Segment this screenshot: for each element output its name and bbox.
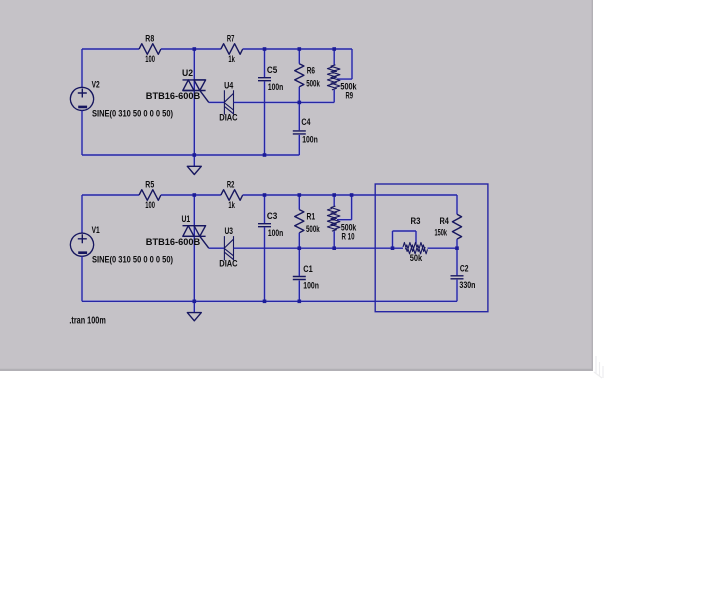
box around snubber network <box>375 184 488 312</box>
wire: C4 bottom lead <box>298 135 300 155</box>
wire: R6 bottom lead <box>298 87 300 103</box>
wire: top rail left (V2 to R8) <box>82 48 139 50</box>
diac U4 <box>219 80 238 122</box>
triac U1 <box>146 214 209 248</box>
junction: top rail / R10 bypass <box>350 193 354 197</box>
voltage source V1 <box>70 225 173 264</box>
svg-text:100: 100 <box>145 54 155 64</box>
wire: C3 top lead <box>264 195 266 223</box>
svg-text:R5: R5 <box>145 179 154 189</box>
wire: C5 top lead <box>264 49 266 77</box>
resistor R8 <box>139 33 161 64</box>
svg-text:100: 100 <box>145 200 155 210</box>
svg-text:U1: U1 <box>182 214 191 224</box>
wire: top rail left (V1 to R5) <box>82 194 139 196</box>
wire: R10 bottom lead <box>333 231 335 248</box>
wire: U3 to R3 (gate rail, enters box) <box>234 247 393 249</box>
junction: top rail / R1 <box>298 193 302 197</box>
wire: V1 bottom lead <box>81 256 83 301</box>
svg-text:R9: R9 <box>346 91 354 101</box>
capacitor C4 <box>293 117 318 144</box>
resistor R1 <box>295 210 321 235</box>
wire: R4 top lead <box>456 195 458 214</box>
junction: top rail / C5 <box>263 47 267 51</box>
junction: gate rail / R4-C2 node <box>455 246 459 250</box>
junction: bottom rail / ground <box>193 300 197 304</box>
svg-text:U2: U2 <box>182 68 193 78</box>
svg-text:R 10: R 10 <box>342 231 355 241</box>
ground (top circuit) <box>187 166 201 174</box>
spice directive .tran 100m <box>69 316 105 327</box>
wire: R3 left lead <box>393 247 404 249</box>
svg-text:C4: C4 <box>301 117 311 127</box>
wire: R9 bottom lead <box>333 90 335 103</box>
wire: top rail R5 to R2 <box>161 194 221 196</box>
junction: top rail / U2 MT2 <box>193 47 197 51</box>
wire: C2 top lead <box>456 248 458 275</box>
svg-text:DIAC: DIAC <box>219 258 238 268</box>
svg-text:50k: 50k <box>410 253 423 263</box>
diac U3 <box>219 226 238 268</box>
capacitor C2 <box>451 264 476 290</box>
capacitor C5 <box>258 65 284 92</box>
wire: C2 bottom lead <box>456 280 458 302</box>
wire: R4 bottom lead <box>456 239 458 248</box>
junction: top rail / U1 MT2 <box>193 193 197 197</box>
wire: U2 gate to diac U4 <box>209 101 225 103</box>
capacitor C3 <box>258 211 284 238</box>
svg-text:.tran 100m: .tran 100m <box>69 316 105 327</box>
svg-text:500k: 500k <box>306 224 320 234</box>
svg-text:BTB16-600B: BTB16-600B <box>146 91 201 101</box>
wire: R1 top lead <box>298 195 300 210</box>
wire: V1 top lead <box>81 195 83 233</box>
junction: bottom rail / C3 <box>263 300 267 304</box>
junction: top rail / R9 <box>332 47 336 51</box>
wire anti-alias glow (decorative underlay) <box>82 49 457 313</box>
svg-text:500k: 500k <box>306 78 320 88</box>
junction: top rail / R10 <box>332 193 336 197</box>
wire: C3 bottom lead (crosses gate rail) <box>264 227 266 301</box>
ground (bottom circuit) <box>187 313 201 321</box>
resistor R4 <box>435 214 462 239</box>
svg-text:U3: U3 <box>225 226 234 236</box>
wire: R6 top lead <box>298 49 300 64</box>
wire: C1 top lead <box>298 248 300 276</box>
resistor R7 <box>221 33 243 64</box>
resistor R6 <box>295 64 321 89</box>
wire: C4 top lead <box>298 102 300 130</box>
svg-text:V2: V2 <box>92 79 100 89</box>
wire: R1 bottom lead <box>298 233 300 249</box>
junction: bottom rail / C5 <box>263 153 267 157</box>
wire: C5 bottom lead (crosses gate rail) <box>264 81 266 155</box>
wire: R3 to R4/C2 node <box>428 247 458 249</box>
svg-text:R8: R8 <box>145 33 154 43</box>
wire: R10 wiper bypass <box>337 195 352 220</box>
svg-text:C1: C1 <box>303 264 312 274</box>
wire: triac U1 branch (MT2 to MT1) <box>193 195 195 301</box>
wire: R9 wiper bypass <box>337 49 352 79</box>
svg-text:R4: R4 <box>440 216 450 226</box>
svg-text:100n: 100n <box>268 228 284 238</box>
svg-text:R7: R7 <box>227 33 235 43</box>
svg-text:R2: R2 <box>227 179 235 189</box>
svg-text:100n: 100n <box>303 281 319 291</box>
wire: C1 bottom lead <box>298 281 300 302</box>
junction: gate rail / R1-C1 node <box>298 246 302 250</box>
capacitor C1 <box>293 264 319 291</box>
junction: bottom rail / ground <box>193 153 197 157</box>
wire: triac U2 branch (MT2 to MT1) <box>193 49 195 155</box>
svg-text:R1: R1 <box>307 212 316 222</box>
resistor R2 <box>221 179 243 210</box>
wire: R3 bypass jumper (left terminal to wiper) <box>393 231 417 248</box>
junction: top rail / R6 <box>298 47 302 51</box>
svg-text:C3: C3 <box>267 211 277 221</box>
wire: top rail R7 to R9 bypass corner <box>243 48 352 50</box>
svg-text:SINE(0 310 50 0 0 0 50): SINE(0 310 50 0 0 0 50) <box>92 255 173 265</box>
svg-text:C2: C2 <box>460 264 469 274</box>
wire: R10 top lead <box>333 195 335 206</box>
resistor R5 <box>139 179 161 210</box>
wire: V2 bottom lead <box>81 111 83 156</box>
wire: R9 top lead <box>333 49 335 65</box>
wire: ground stub (bottom circuit) <box>193 301 195 312</box>
junction: gate rail / R10 <box>332 246 336 250</box>
potentiometer R9 <box>327 65 357 101</box>
svg-text:DIAC: DIAC <box>219 112 238 122</box>
wire: bottom rail of bottom circuit <box>82 300 457 302</box>
wire: ground stub (top circuit) <box>193 155 195 167</box>
voltage source V2 <box>70 79 173 118</box>
svg-text:100n: 100n <box>302 135 318 145</box>
svg-text:1k: 1k <box>228 200 235 210</box>
potentiometer R10 <box>327 206 357 241</box>
svg-text:V1: V1 <box>92 225 100 235</box>
svg-text:330n: 330n <box>459 280 475 290</box>
wire: U1 gate to diac U3 <box>209 247 225 249</box>
potentiometer R3 <box>403 216 428 263</box>
svg-text:U4: U4 <box>224 80 234 90</box>
wire: V2 top lead <box>81 49 83 87</box>
svg-text:BTB16-600B: BTB16-600B <box>146 237 201 247</box>
junction: top rail / C3 <box>263 193 267 197</box>
svg-text:R6: R6 <box>307 66 315 76</box>
wire: top rail R8 to R7 <box>161 48 221 50</box>
triac U2 <box>146 68 209 102</box>
svg-text:SINE(0 310 50 0 0 0 50): SINE(0 310 50 0 0 0 50) <box>92 109 173 119</box>
junction: bottom rail / C1 <box>298 300 302 304</box>
svg-text:1k: 1k <box>228 54 235 64</box>
svg-text:150k: 150k <box>435 227 448 237</box>
svg-text:R3: R3 <box>411 216 421 226</box>
svg-text:100n: 100n <box>268 82 284 92</box>
junction: gate rail / R3 left terminal <box>391 246 395 250</box>
wire: bottom rail of top circuit <box>82 154 299 156</box>
svg-text:C5: C5 <box>267 65 277 75</box>
wire: top rail R2 to R4 (enters box) <box>243 194 457 196</box>
wire: U4 to gate rail node A1 <box>234 101 335 103</box>
junction: gate rail / R6-C4 node <box>298 101 302 105</box>
